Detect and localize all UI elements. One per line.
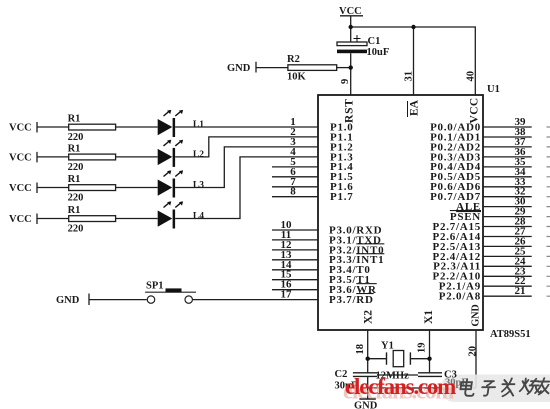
wire X1 vertical pin19 — [429, 330, 431, 373]
svg-text:9: 9 — [340, 79, 351, 84]
SP1 actuator bar — [145, 291, 196, 293]
wire RST vertical — [350, 27, 352, 95]
LED L2 cathode bar — [173, 148, 176, 167]
VCC power symbol top — [340, 16, 363, 27]
svg-text:L4: L4 — [193, 212, 204, 222]
wire VCC rail — [351, 27, 476, 95]
svg-text:P3.7/RD: P3.7/RD — [329, 294, 374, 306]
left inner labels P1 — [330, 121, 353, 203]
svg-text:220: 220 — [68, 192, 84, 203]
right edge dashes — [547, 127, 550, 296]
svg-text:L1: L1 — [193, 120, 204, 130]
wire L1 to pin1 — [175, 126, 318, 128]
junction dots bottom — [366, 357, 432, 361]
svg-text:GND: GND — [56, 295, 80, 306]
svg-text:R2: R2 — [287, 54, 300, 65]
wire VCC tick row2 — [37, 152, 69, 163]
resistor R1 body row4 — [69, 216, 116, 222]
svg-text:P1.7: P1.7 — [330, 191, 353, 203]
svg-text:SP1: SP1 — [146, 281, 164, 292]
SP1 terminal circles — [147, 296, 154, 303]
wire L2 jog to pin2 — [175, 137, 318, 157]
wire R1 to LED row2 — [116, 156, 158, 158]
svg-text:U1: U1 — [487, 84, 500, 95]
svg-text:R1: R1 — [68, 174, 81, 185]
svg-text:VCC: VCC — [9, 183, 32, 194]
capacitor C3 plates — [418, 373, 442, 377]
svg-text:L2: L2 — [193, 150, 204, 160]
wire GND tick — [89, 294, 147, 306]
svg-text:P2.0/A8: P2.0/A8 — [439, 291, 481, 303]
chinese watermark dianzifashaoyou (drawn strokes) — [460, 378, 550, 396]
svg-text:Y1: Y1 — [381, 341, 394, 352]
svg-text:17: 17 — [281, 289, 293, 301]
wire C2-C3 bus through 12MHz — [377, 374, 418, 376]
resistor R1 body row3 — [69, 185, 116, 191]
svg-text:8: 8 — [290, 186, 296, 198]
LED L3 triangle — [158, 180, 173, 196]
svg-text:220: 220 — [68, 162, 84, 173]
svg-text:20: 20 — [468, 346, 479, 357]
wire X2 vertical pin18 — [367, 330, 369, 373]
left inner labels P3 — [329, 224, 384, 306]
IC U1 box AT89S51 — [318, 95, 483, 330]
wire C2 bottom to GND — [367, 376, 369, 399]
svg-text:GND: GND — [471, 304, 482, 326]
svg-text:GND: GND — [227, 63, 251, 74]
LED L1 arrows — [164, 111, 182, 116]
wire VCC tick row3 — [37, 183, 69, 194]
svg-text:EA: EA — [409, 99, 421, 116]
svg-text:220: 220 — [68, 223, 84, 234]
grey watermark band — [441, 375, 550, 403]
C1 plus sign — [354, 35, 361, 42]
svg-text:18: 18 — [355, 344, 366, 355]
svg-text:VCC: VCC — [469, 97, 481, 123]
LED L1 triangle — [158, 119, 173, 135]
crystal Y1 electrodes — [387, 352, 411, 364]
LED L4 cathode bar — [173, 210, 176, 229]
svg-text:X1: X1 — [423, 310, 435, 324]
wire VCC tick row1 — [37, 122, 69, 133]
svg-text:31: 31 — [404, 71, 415, 82]
svg-text:VCC: VCC — [339, 6, 362, 17]
wire R1 to LED row1 — [116, 126, 158, 128]
LED L3 arrows — [164, 171, 182, 176]
svg-text:10K: 10K — [287, 72, 307, 83]
svg-text:19: 19 — [417, 343, 428, 354]
capacitor C1 plates — [337, 42, 367, 46]
svg-text:R1: R1 — [68, 205, 81, 216]
svg-text:21: 21 — [515, 285, 526, 297]
svg-text:40: 40 — [466, 71, 477, 82]
resistor R2 body — [288, 65, 337, 71]
capacitor C2 plates — [353, 373, 377, 377]
right inner labels P0 — [430, 121, 481, 302]
LED L3 cathode bar — [173, 179, 176, 198]
wire EA vertical pin31 — [413, 27, 415, 95]
svg-text:C1: C1 — [368, 36, 381, 47]
wire L3 jog to pin3 — [175, 147, 318, 188]
wire L4 jog to pin4 — [175, 157, 318, 219]
wire R2 to RST node — [337, 67, 351, 69]
svg-text:L3: L3 — [193, 181, 204, 191]
svg-text:R1: R1 — [68, 114, 81, 125]
ground symbol bar — [359, 398, 375, 400]
wire R1 to LED row4 — [116, 218, 158, 220]
LED L1 cathode bar — [173, 118, 176, 137]
switch SP1 — [56, 281, 318, 307]
wire VCC tick row4 — [37, 214, 69, 225]
svg-text:VCC: VCC — [9, 214, 32, 225]
svg-text:AT89S51: AT89S51 — [490, 329, 531, 340]
left stub wires pins 5-8 — [272, 167, 318, 290]
resistor R1 body row2 — [69, 154, 116, 160]
LED L2 arrows — [164, 141, 182, 146]
LED L4 triangle — [158, 211, 173, 227]
crystal Y1 leads — [368, 358, 430, 360]
svg-text:RST: RST — [344, 98, 356, 123]
wire SP1 to pin17 — [192, 299, 318, 301]
svg-text:VCC: VCC — [9, 152, 32, 163]
svg-text:220: 220 — [68, 132, 84, 143]
crystal Y1 body — [393, 351, 404, 367]
svg-text:elecfans.com: elecfans.com — [345, 374, 456, 399]
svg-text:10uF: 10uF — [367, 47, 390, 58]
left stub wires pins 10-16 — [272, 229, 318, 231]
bottom crystal circuit — [353, 330, 476, 399]
junction dots top — [349, 25, 416, 70]
wire GND tick to R2 — [256, 62, 288, 73]
LED L2 triangle — [158, 149, 173, 165]
resistor R1 body row1 — [69, 124, 116, 130]
svg-text:R1: R1 — [68, 143, 81, 154]
wire GND bus y388 — [368, 387, 476, 389]
wire GND vertical pin20 — [475, 330, 477, 388]
svg-text:X2: X2 — [363, 310, 375, 324]
wire R1 to LED row3 — [116, 187, 158, 189]
right pin wires 39-21 — [483, 127, 532, 296]
LED L4 arrows — [164, 202, 182, 207]
pin numbers left 1-8 — [281, 116, 297, 301]
pin numbers right 39-21 — [515, 116, 527, 297]
svg-text:VCC: VCC — [9, 123, 32, 134]
